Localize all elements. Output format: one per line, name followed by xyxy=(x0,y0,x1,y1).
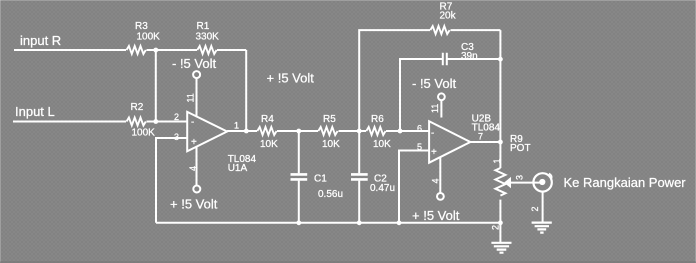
svg-text:1: 1 xyxy=(492,158,502,163)
wire U1A output xyxy=(227,130,257,132)
wire connector to ground xyxy=(542,192,544,222)
ground rail bottom wire xyxy=(156,222,500,224)
svg-text:U1A: U1A xyxy=(228,163,248,174)
wire R6 to U2B pin6 xyxy=(386,130,429,132)
svg-text:TL084: TL084 xyxy=(472,123,501,134)
svg-text:R5: R5 xyxy=(323,114,336,125)
resistor R6 xyxy=(366,127,385,135)
wire input R xyxy=(14,50,246,131)
terminal circle U2B V+ xyxy=(437,193,444,200)
svg-text:0.56u: 0.56u xyxy=(318,189,343,200)
wire U1A pin11 xyxy=(196,78,198,116)
junction dot U2B output xyxy=(498,140,503,145)
junction dot C3 output side xyxy=(498,57,503,62)
svg-text:input R: input R xyxy=(20,33,61,48)
op-amp U1A xyxy=(187,112,227,152)
svg-text:11: 11 xyxy=(186,93,196,102)
resistor R7 xyxy=(430,26,449,34)
resistor R1 xyxy=(197,46,216,54)
svg-text:- !5 Volt: - !5 Volt xyxy=(412,76,456,91)
svg-text:10K: 10K xyxy=(373,139,391,150)
svg-text:R4: R4 xyxy=(261,114,274,125)
svg-text:R2: R2 xyxy=(131,102,144,113)
svg-text:6: 6 xyxy=(417,124,422,134)
svg-text:2: 2 xyxy=(174,112,179,122)
svg-text:+ !5 Volt: + !5 Volt xyxy=(412,208,460,223)
junction dot pin5 ground xyxy=(397,220,402,225)
capacitor C3 xyxy=(443,53,447,65)
ground connector xyxy=(532,223,552,233)
junction dot pot rail xyxy=(498,220,503,225)
potentiometer R9 xyxy=(495,142,542,223)
svg-text:R6: R6 xyxy=(371,114,384,125)
svg-text:+: + xyxy=(431,147,437,158)
svg-text:39n: 39n xyxy=(461,51,478,62)
capacitor C1 xyxy=(291,131,308,223)
svg-text:POT: POT xyxy=(510,143,531,154)
wire U2B pin5 to ground rail xyxy=(399,151,429,223)
wire R5 to R6 xyxy=(339,130,367,132)
ground main xyxy=(491,223,511,253)
svg-text:1: 1 xyxy=(234,121,239,131)
terminal circle U1A V- xyxy=(193,71,200,78)
svg-text:330K: 330K xyxy=(196,32,220,43)
svg-text:+: + xyxy=(191,137,197,148)
svg-text:4: 4 xyxy=(431,178,441,183)
wire U2B output xyxy=(470,141,500,143)
node R3-R2 junction vertical wire xyxy=(155,50,157,122)
svg-text:+ !5 Volt: + !5 Volt xyxy=(170,196,218,211)
svg-text:Input L: Input L xyxy=(15,104,55,119)
junction dot C3 node xyxy=(398,129,403,134)
svg-text:2: 2 xyxy=(530,206,540,211)
svg-text:-: - xyxy=(431,128,434,139)
svg-text:-: - xyxy=(191,117,194,128)
svg-text:2: 2 xyxy=(491,225,501,230)
svg-text:4: 4 xyxy=(188,166,198,171)
wire R4 to R5 xyxy=(277,130,318,132)
junction dot C2 node xyxy=(357,129,362,134)
wire C3 branch xyxy=(400,59,500,131)
resistor R5 xyxy=(318,127,337,135)
wire feedback up from node A xyxy=(359,30,430,131)
svg-text:100K: 100K xyxy=(132,127,156,138)
capacitor C2 xyxy=(351,131,368,223)
svg-text:5: 5 xyxy=(417,142,422,152)
resistor R3 xyxy=(127,46,146,54)
resistor R4 xyxy=(257,127,276,135)
junction dot C2 rail xyxy=(357,220,362,225)
junction dot mixing node xyxy=(153,119,158,124)
svg-text:0.47u: 0.47u xyxy=(370,183,395,194)
wire R7 to output vertical xyxy=(451,30,501,142)
svg-text:20k: 20k xyxy=(440,11,457,22)
wire U1A pin4 xyxy=(196,147,198,186)
terminal circle U1A V+ xyxy=(193,186,200,193)
svg-text:11: 11 xyxy=(430,104,440,113)
resistor R2 xyxy=(127,118,146,126)
terminal circle U2B V- xyxy=(438,93,445,100)
svg-text:R3: R3 xyxy=(135,21,148,32)
svg-text:C1: C1 xyxy=(314,174,327,185)
svg-text:3: 3 xyxy=(515,175,525,180)
wire U2B pin4 xyxy=(439,157,441,193)
wire U2B pin11 xyxy=(440,100,442,117)
junction dot node A top xyxy=(153,48,158,53)
svg-text:R1: R1 xyxy=(197,21,210,32)
svg-text:100K: 100K xyxy=(137,32,161,43)
svg-text:- !5 Volt: - !5 Volt xyxy=(172,56,216,71)
junction dot U1A output xyxy=(244,129,249,134)
op-amp U2B xyxy=(429,121,470,163)
connector output jack xyxy=(533,173,551,191)
svg-text:+ !5 Volt: + !5 Volt xyxy=(267,71,315,86)
svg-text:10K: 10K xyxy=(322,139,340,150)
junction dot C1 rail xyxy=(296,220,301,225)
svg-text:10K: 10K xyxy=(260,139,278,150)
wire Input L xyxy=(13,121,187,123)
svg-text:Ke Rangkaian Power: Ke Rangkaian Power xyxy=(564,175,687,190)
wire U1A pin3 to ground rail xyxy=(156,138,187,223)
junction dot C1 node xyxy=(296,129,301,134)
svg-text:3: 3 xyxy=(174,132,179,142)
